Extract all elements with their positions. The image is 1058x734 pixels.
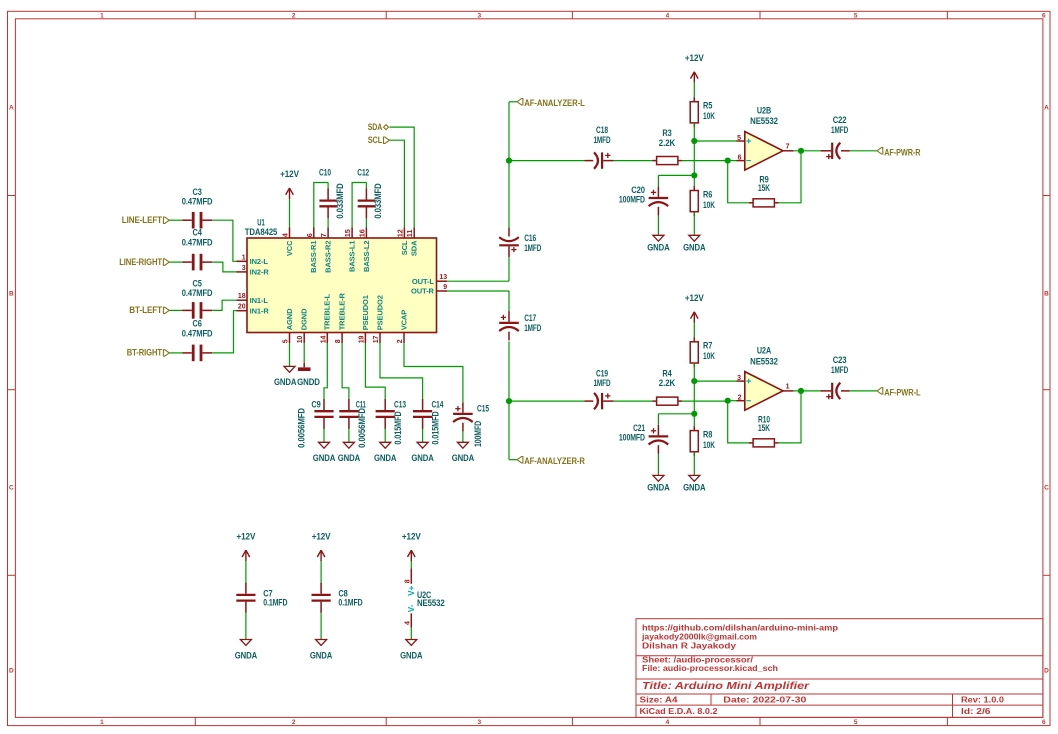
svg-text:GNDA: GNDA	[310, 651, 333, 661]
svg-text:PSEUDO2: PSEUDO2	[375, 295, 384, 330]
svg-text:U2B: U2B	[757, 105, 772, 115]
svg-text:GNDA: GNDA	[647, 482, 670, 492]
svg-text:100MFD: 100MFD	[619, 194, 646, 204]
svg-text:OUT-R: OUT-R	[411, 287, 435, 296]
svg-text:4: 4	[666, 719, 670, 726]
svg-text:TREBLE-R: TREBLE-R	[338, 293, 347, 331]
svg-text:1: 1	[100, 12, 104, 19]
svg-text:SCL: SCL	[400, 240, 409, 255]
svg-text:GNDA: GNDA	[374, 453, 397, 463]
svg-text:C23: C23	[833, 355, 847, 365]
svg-text:C13: C13	[394, 400, 406, 410]
svg-text:8: 8	[335, 339, 342, 343]
svg-text:5: 5	[854, 719, 858, 726]
svg-text:1: 1	[786, 384, 790, 391]
svg-text:4: 4	[281, 232, 290, 237]
svg-text:100MFD: 100MFD	[473, 420, 483, 447]
svg-text:0.1MFD: 0.1MFD	[263, 597, 288, 607]
svg-text:C21: C21	[633, 423, 645, 433]
svg-text:1MFD: 1MFD	[593, 378, 611, 388]
svg-text:BT-LEFT: BT-LEFT	[129, 304, 162, 315]
svg-text:GNDA: GNDA	[683, 242, 706, 252]
svg-text:+12V: +12V	[402, 531, 421, 541]
svg-text:8: 8	[404, 579, 411, 583]
svg-text:AF-PWR-L: AF-PWR-L	[884, 386, 921, 397]
svg-text:0.1MFD: 0.1MFD	[338, 597, 363, 607]
svg-text:D: D	[9, 667, 14, 674]
svg-text:C17: C17	[524, 313, 536, 323]
svg-text:BASS-R1: BASS-R1	[309, 241, 318, 273]
svg-text:1: 1	[242, 254, 246, 261]
svg-text:C22: C22	[833, 115, 847, 125]
svg-text:OUT-L: OUT-L	[412, 277, 435, 286]
svg-text:18: 18	[238, 293, 246, 300]
svg-text:GNDA: GNDA	[274, 377, 297, 387]
svg-text:6: 6	[305, 233, 314, 237]
svg-text:SDA: SDA	[368, 121, 383, 132]
svg-text:GNDA: GNDA	[683, 482, 706, 492]
svg-text:14: 14	[320, 336, 327, 344]
svg-text:4: 4	[404, 621, 411, 625]
svg-text:4: 4	[666, 12, 670, 19]
svg-text:File: audio-processor.kicad_sc: File: audio-processor.kicad_sch	[642, 663, 778, 673]
svg-text:GNDA: GNDA	[235, 651, 258, 661]
svg-text:IN1-R: IN1-R	[250, 306, 270, 315]
svg-text:10: 10	[297, 336, 304, 344]
svg-text:2.2K: 2.2K	[659, 138, 676, 148]
svg-text:3: 3	[737, 375, 741, 382]
svg-text:R5: R5	[703, 101, 712, 111]
svg-text:GNDA: GNDA	[411, 453, 434, 463]
svg-text:C12: C12	[357, 168, 369, 178]
svg-text:6: 6	[1042, 12, 1046, 19]
svg-text:5: 5	[737, 135, 741, 142]
svg-text:10K: 10K	[703, 351, 715, 361]
svg-text:BASS-L2: BASS-L2	[362, 241, 371, 272]
svg-text:3: 3	[478, 12, 482, 19]
svg-text:VCAP: VCAP	[399, 310, 408, 331]
svg-text:15: 15	[343, 229, 352, 237]
svg-text:0.47MFD: 0.47MFD	[182, 329, 213, 339]
svg-text:5: 5	[283, 339, 290, 343]
svg-text:V+: V+	[407, 585, 416, 595]
svg-text:10K: 10K	[703, 440, 715, 450]
svg-text:3: 3	[478, 719, 482, 726]
svg-text:+12V: +12V	[685, 293, 704, 303]
svg-text:0.47MFD: 0.47MFD	[182, 237, 213, 247]
svg-text:GNDA: GNDA	[647, 242, 670, 252]
svg-text:2: 2	[738, 395, 742, 402]
svg-text:0.033MFD: 0.033MFD	[335, 183, 345, 219]
svg-text:A: A	[9, 105, 14, 112]
svg-text:0.033MFD: 0.033MFD	[373, 183, 383, 219]
svg-text:Title: Arduino Mini Amplifier: Title: Arduino Mini Amplifier	[642, 681, 810, 692]
svg-text:BASS-R2: BASS-R2	[324, 241, 333, 273]
svg-text:C19: C19	[596, 368, 608, 378]
svg-text:B: B	[1044, 291, 1049, 298]
svg-text:0.0056MFD: 0.0056MFD	[297, 408, 307, 448]
svg-text:1MFD: 1MFD	[593, 135, 611, 145]
svg-text:1MFD: 1MFD	[524, 243, 542, 253]
svg-text:0.47MFD: 0.47MFD	[182, 288, 213, 298]
svg-text:6: 6	[738, 155, 742, 162]
svg-text:17: 17	[373, 336, 380, 344]
svg-text:11: 11	[405, 230, 414, 238]
svg-text:TDA8425: TDA8425	[245, 227, 278, 237]
svg-text:0.015MFD: 0.015MFD	[431, 411, 441, 445]
svg-text:D: D	[1044, 667, 1049, 674]
svg-text:U2A: U2A	[757, 345, 772, 355]
svg-text:AF-PWR-R: AF-PWR-R	[884, 146, 921, 157]
svg-text:1MFD: 1MFD	[831, 125, 849, 135]
svg-text:GNDD: GNDD	[297, 377, 320, 387]
svg-text:Rev: 1.0.0: Rev: 1.0.0	[961, 695, 1004, 705]
svg-text:B: B	[9, 291, 14, 298]
svg-text:2: 2	[397, 339, 404, 343]
svg-text:BT-RIGHT: BT-RIGHT	[127, 347, 163, 358]
svg-text:13: 13	[439, 274, 447, 281]
svg-text:PSEUDO1: PSEUDO1	[361, 295, 370, 330]
svg-text:C: C	[1044, 484, 1049, 491]
svg-text:7: 7	[786, 144, 790, 151]
svg-text:0.0056MFD: 0.0056MFD	[357, 408, 367, 448]
svg-text:AF-ANALYZER-R: AF-ANALYZER-R	[524, 455, 585, 466]
svg-text:15K: 15K	[758, 423, 770, 433]
svg-text:2.2K: 2.2K	[659, 378, 676, 388]
svg-text:16: 16	[357, 229, 366, 237]
svg-text:0.47MFD: 0.47MFD	[182, 197, 213, 207]
svg-text:Dilshan R Jayakody: Dilshan R Jayakody	[642, 640, 736, 650]
svg-text:R4: R4	[662, 368, 671, 378]
svg-text:Date: 2022-07-30: Date: 2022-07-30	[723, 695, 806, 705]
svg-text:R6: R6	[703, 189, 712, 199]
svg-text:GNDA: GNDA	[400, 651, 423, 661]
svg-text:6: 6	[1042, 719, 1046, 726]
svg-text:C20: C20	[631, 185, 645, 195]
svg-text:TREBLE-L: TREBLE-L	[323, 294, 332, 331]
svg-text:10K: 10K	[703, 111, 715, 121]
svg-text:2: 2	[292, 719, 296, 726]
svg-text:R3: R3	[662, 128, 671, 138]
svg-text:GNDA: GNDA	[338, 453, 361, 463]
svg-text:IN2-R: IN2-R	[250, 268, 270, 277]
svg-text:C15: C15	[477, 403, 489, 413]
svg-text:VCC: VCC	[285, 240, 294, 256]
svg-text:12: 12	[395, 229, 404, 237]
svg-text:C18: C18	[596, 125, 608, 135]
svg-text:NE5532: NE5532	[750, 116, 778, 126]
svg-text:BASS-L1: BASS-L1	[348, 241, 357, 272]
svg-text:AGND: AGND	[285, 308, 294, 330]
svg-text:DGND: DGND	[300, 308, 309, 330]
svg-text:KiCad E.D.A. 8.0.2: KiCad E.D.A. 8.0.2	[640, 706, 718, 716]
svg-text:+12V: +12V	[312, 531, 331, 541]
svg-text:1: 1	[100, 719, 104, 726]
svg-text:IN2-L: IN2-L	[250, 257, 269, 266]
svg-text:C16: C16	[524, 233, 536, 243]
svg-text:NE5532: NE5532	[750, 356, 778, 366]
svg-text:C4: C4	[192, 228, 201, 238]
svg-text:R7: R7	[703, 341, 712, 351]
svg-text:C11: C11	[356, 400, 366, 410]
svg-text:1MFD: 1MFD	[524, 323, 542, 333]
svg-text:10K: 10K	[703, 200, 715, 210]
svg-text:V-: V-	[407, 604, 416, 612]
svg-text:C3: C3	[192, 187, 201, 197]
svg-text:GNDA: GNDA	[313, 453, 336, 463]
svg-text:20: 20	[238, 304, 246, 311]
svg-text:GNDA: GNDA	[452, 453, 475, 463]
svg-text:SDA: SDA	[410, 240, 419, 256]
svg-text:100MFD: 100MFD	[619, 433, 646, 443]
svg-text:3: 3	[242, 265, 246, 272]
svg-text:5: 5	[854, 12, 858, 19]
svg-text:LINE-RIGHT: LINE-RIGHT	[119, 256, 162, 267]
svg-text:C10: C10	[319, 168, 331, 178]
svg-text:0.015MFD: 0.015MFD	[393, 411, 403, 445]
svg-text:LINE-LEFT: LINE-LEFT	[122, 214, 163, 225]
svg-text:2: 2	[292, 12, 296, 19]
svg-text:15K: 15K	[758, 183, 770, 193]
svg-text:NE5532: NE5532	[417, 598, 445, 608]
svg-text:+12V: +12V	[280, 169, 299, 179]
svg-text:R8: R8	[703, 430, 712, 440]
svg-text:IN1-L: IN1-L	[250, 296, 269, 305]
svg-text:+12V: +12V	[685, 53, 704, 63]
svg-text:1MFD: 1MFD	[831, 365, 849, 375]
svg-text:C9: C9	[311, 400, 320, 410]
svg-text:SCL: SCL	[368, 134, 383, 145]
svg-text:+12V: +12V	[237, 531, 256, 541]
svg-text:Id: 2/6: Id: 2/6	[961, 706, 991, 716]
svg-text:Size: A4: Size: A4	[640, 695, 678, 705]
svg-text:7: 7	[319, 233, 328, 237]
svg-text:AF-ANALYZER-L: AF-ANALYZER-L	[524, 97, 585, 108]
svg-text:9: 9	[443, 284, 447, 291]
svg-text:U1: U1	[257, 217, 264, 227]
svg-text:19: 19	[358, 336, 365, 344]
svg-text:C: C	[9, 484, 14, 491]
svg-text:C14: C14	[431, 400, 443, 410]
svg-text:A: A	[1044, 105, 1049, 112]
svg-text:C6: C6	[192, 319, 201, 329]
